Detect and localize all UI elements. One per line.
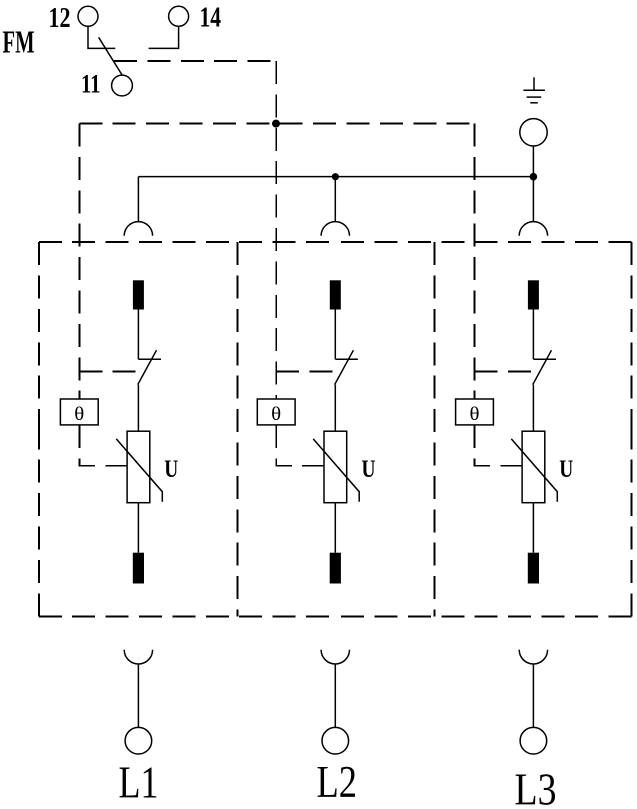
wire disconnector to varistor leg3	[532, 385, 534, 432]
terminal block bottom leg3	[528, 553, 539, 584]
svg-text:U: U	[164, 456, 178, 483]
module divider 1	[237, 242, 239, 616]
terminal block top leg3	[528, 280, 539, 309]
solid neutral bus wire	[138, 176, 533, 178]
switch FM changeover blade	[99, 37, 122, 75]
dashed trip linkage leg3	[475, 371, 541, 373]
dashed trip linkage leg2	[276, 371, 342, 373]
dashed thermal signal bus	[79, 123, 474, 125]
wire terminal to disconnector leg1	[137, 310, 139, 360]
enclosure dashed box	[39, 242, 632, 616]
dashed link theta to varistor leg2	[276, 425, 324, 466]
external terminal circle leg2	[322, 727, 349, 754]
wire varistor to bottom terminal leg2	[334, 503, 336, 553]
value label U leg1	[164, 456, 178, 483]
wire disconnector to varistor leg1	[137, 385, 139, 432]
wire varistor to bottom terminal leg3	[532, 503, 534, 553]
terminal 14	[169, 6, 189, 26]
wire bus to leg1 plug	[137, 177, 139, 222]
svg-text:U: U	[362, 456, 376, 483]
svg-text:L2: L2	[317, 757, 358, 807]
plug-in arc bottom leg1	[124, 650, 152, 664]
svg-text:14: 14	[200, 2, 222, 34]
plug-in arc bottom leg2	[321, 650, 349, 664]
svg-text:L3: L3	[515, 764, 557, 809]
dashed link theta to varistor leg1	[79, 425, 127, 466]
label FM	[3, 23, 35, 59]
pin label 12	[49, 2, 71, 34]
thermal monitor theta box leg3	[456, 399, 494, 425]
ground symbol	[523, 77, 545, 103]
wire plug to external terminal leg1	[137, 664, 139, 727]
plug-in arc top leg2	[321, 222, 349, 236]
svg-text:U: U	[559, 456, 573, 483]
thermal disconnector leg3	[533, 350, 556, 385]
terminal block top leg1	[133, 280, 144, 309]
wire plug to external terminal leg3	[532, 664, 534, 727]
dashed trip linkage leg1	[79, 371, 145, 373]
label L2	[317, 757, 358, 807]
svg-text:11: 11	[81, 69, 101, 98]
pin label 14	[200, 2, 222, 34]
module divider 2	[434, 242, 436, 616]
junction dot bus / leg2	[332, 173, 339, 180]
junction dot on signal bus	[272, 120, 280, 128]
svg-text:12: 12	[49, 2, 71, 34]
pin label 11	[81, 69, 101, 98]
svg-text:θ: θ	[470, 405, 480, 425]
wire plug to external terminal leg2	[334, 664, 336, 727]
terminal block bottom leg1	[133, 553, 144, 584]
wire disconnector to varistor leg2	[334, 385, 336, 432]
thermal disconnector leg2	[335, 350, 358, 385]
varistor U leg2	[313, 431, 359, 503]
wire varistor to bottom terminal leg1	[137, 503, 139, 553]
svg-text:FM: FM	[3, 23, 35, 59]
wire terminal 14 down with contact tick	[149, 26, 179, 48]
plug-in arc bottom leg3	[519, 650, 547, 664]
varistor U leg1	[116, 431, 162, 503]
dashed riser theta2 from FM link	[275, 61, 277, 399]
label L3	[515, 764, 557, 809]
terminal block bottom leg2	[330, 553, 341, 584]
thermal monitor theta box leg2	[257, 399, 295, 425]
terminal 12	[78, 6, 98, 26]
label L1	[119, 757, 159, 807]
wire terminal to disconnector leg2	[334, 310, 336, 360]
plug-in arc top leg3	[519, 222, 547, 236]
external terminal circle leg3	[520, 727, 547, 754]
dashed riser theta1 from signal bus	[78, 124, 80, 400]
wire terminal to disconnector leg3	[532, 310, 534, 360]
svg-text:L1: L1	[119, 757, 159, 807]
wire ground terminal to bus	[532, 146, 534, 222]
dashed link theta to varistor leg3	[475, 425, 523, 466]
junction dot bus / ground leg	[530, 173, 538, 181]
value label U leg2	[362, 456, 376, 483]
dashed riser theta3 from signal bus	[474, 124, 476, 400]
terminal 11	[112, 75, 133, 96]
svg-text:θ: θ	[74, 405, 84, 425]
wire bus to leg2 plug	[334, 177, 336, 222]
external terminal circle leg1	[125, 727, 152, 754]
thermal monitor theta box leg1	[60, 399, 98, 425]
dashed mechanical link from FM blade	[114, 60, 276, 62]
varistor U leg3	[511, 431, 557, 503]
thermal disconnector leg1	[138, 350, 161, 385]
plug-in arc top leg1	[124, 222, 152, 236]
svg-text:θ: θ	[271, 405, 281, 425]
terminal block top leg2	[330, 280, 341, 309]
value label U leg3	[559, 456, 573, 483]
wire terminal 12 down with contact tick	[88, 26, 115, 48]
ground terminal circle	[520, 119, 547, 146]
